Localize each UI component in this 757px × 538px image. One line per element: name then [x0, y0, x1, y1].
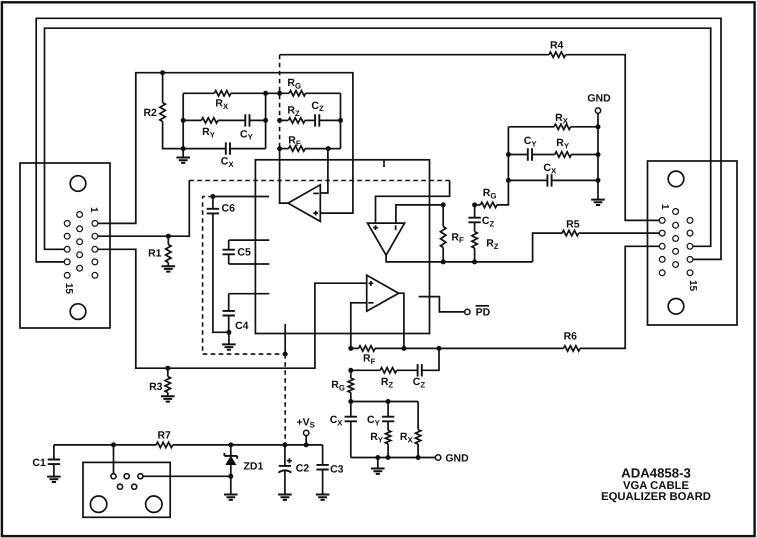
node network2 left bus row3: [506, 178, 511, 183]
node RY3 bottom: [386, 455, 391, 460]
capacitor C6: [212, 197, 214, 209]
ground at C4: [228, 332, 230, 344]
resistor R3: [165, 377, 170, 393]
wire network1 row1 to inner bus and dashed bus: [231, 92, 289, 94]
node network3 left: [348, 399, 353, 404]
terminal GND (channel 2 network top): [595, 108, 600, 113]
wire +Vs pin stub from inside chip: [284, 324, 286, 354]
node network3 CY branch: [386, 399, 391, 404]
node RX3 bottom: [416, 455, 421, 460]
svg-text:C2: C2: [296, 462, 310, 474]
node ZD1 / jack ground junction: [228, 474, 233, 479]
resistor RG (channel 3): [350, 370, 352, 378]
node rail at C2/dashed drop: [282, 442, 287, 447]
J1 pin circles right column: [92, 221, 98, 227]
node network2 right bus row1: [596, 124, 601, 129]
resistor R7: [156, 442, 173, 447]
J2 pin circles right column: [687, 218, 693, 224]
wire PD pin from chip: [419, 297, 465, 312]
dashed channel 2 path across chip: [189, 180, 449, 182]
wire outer wrap (J1 pin 4 to J2 pin 4 around top): [36, 18, 721, 262]
capacitor CY (channel 2): [508, 154, 527, 156]
wire RY to CY: [218, 119, 245, 121]
power jack pin 1: [111, 474, 116, 479]
resistor RY (channel 1): [201, 118, 218, 123]
wire R5 to J2 pin2: [579, 232, 660, 234]
svg-text:GND: GND: [587, 93, 611, 105]
node row1 inner bus: [263, 91, 268, 96]
op-amp U1c (channel 3, points right): [367, 275, 399, 311]
wire RZ3 left stub: [351, 369, 381, 371]
svg-text:ZD1: ZD1: [244, 460, 264, 472]
node row3 dashed bus: [277, 146, 282, 151]
connector J2 (right VGA DB15) body: [648, 161, 738, 325]
node network2 left bus row2: [506, 152, 511, 157]
wire network2 row1 left: [508, 126, 554, 128]
node network3 ground branch: [375, 455, 380, 460]
node row2 dashed bus: [277, 118, 282, 123]
svg-text:1: 1: [659, 204, 670, 210]
svg-text:R6: R6: [564, 331, 578, 343]
wire network1 row1 left segment: [183, 92, 214, 94]
wire inner wrap (J1 pin 3 to J2 pin 3 around top): [45, 28, 711, 249]
op-amp package U1 (ADA4858-3) outline: [255, 160, 429, 334]
resistor R6: [564, 346, 581, 351]
wire R1 bottom stub: [167, 263, 169, 267]
wire RZ3 to CZ3: [397, 369, 418, 371]
ground at C3: [316, 495, 330, 500]
node network2 right bus row3: [596, 178, 601, 183]
svg-text:R5: R5: [566, 218, 580, 230]
resistor RZ (channel 3): [380, 368, 397, 373]
svg-text:R1: R1: [148, 247, 162, 259]
ground at R1: [162, 266, 176, 271]
ground at C2: [278, 495, 292, 500]
node RZ2 bottom: [472, 259, 477, 264]
capacitor C3: [322, 445, 324, 465]
wire R3 bottom stub: [167, 393, 169, 397]
node rail at ZD1: [228, 442, 233, 447]
dashed supply route from C6 node around to +Vs pin: [203, 197, 286, 355]
capacitor CX (channel 1): [226, 142, 230, 154]
connector J1 mounting hole bottom: [70, 304, 86, 320]
node RF / op-amp1 inverting riser: [326, 146, 331, 151]
op-amp U1a (channel 1, points left): [288, 185, 320, 222]
capacitor C4 top stub: [229, 293, 270, 295]
ground at ZD1: [224, 495, 238, 500]
node C4/C6 ground junction: [226, 330, 231, 335]
resistor R4: [549, 52, 566, 57]
node RZ2/CZ2 top: [472, 202, 477, 207]
power jack pin 4: [117, 484, 122, 489]
node network1 ground junction: [181, 146, 186, 151]
resistor RX (channel 2): [554, 124, 571, 129]
svg-text:R3: R3: [149, 381, 163, 393]
node rail to power connector: [111, 442, 116, 447]
resistor R4 wire to J2 pin 1: [280, 54, 549, 56]
resistor RZ (channel 2): [474, 222, 476, 231]
wire power jack ground pin to ZD1 node: [143, 475, 231, 477]
node network2 right bus row2: [596, 152, 601, 157]
wire RF right to bus: [305, 148, 341, 150]
resistor R5: [562, 230, 579, 235]
capacitor CX (channel 2): [508, 179, 547, 181]
wire network3 node row: [351, 401, 418, 403]
connector J1 (left VGA DB15) body: [20, 163, 110, 328]
terminal GND (channel 3 network): [435, 455, 440, 460]
capacitor CZ (channel 2): [474, 205, 476, 218]
resistor R1: [166, 245, 171, 263]
capacitor CY (channel 1): [245, 114, 249, 126]
resistor RG (channel 2): [475, 204, 481, 206]
power jack body: [83, 462, 170, 517]
wire channel 2 input drop to op-amp U1b +: [376, 181, 450, 224]
wire channel 3 input: J1 pin3 down, across, up to op-amp U1c +: [98, 249, 367, 368]
wire CZ to right bus: [320, 119, 341, 121]
capacitor CZ (channel 3): [418, 364, 422, 376]
node U1c output at RF3 row: [401, 346, 406, 351]
op-amp U1b (channel 2, points down): [368, 223, 405, 255]
svg-text:EQUALIZER BOARD: EQUALIZER BOARD: [601, 491, 711, 503]
terminal +Vs: [305, 436, 307, 445]
svg-text:C3: C3: [330, 463, 344, 475]
capacitor C5 top stub: [229, 239, 270, 241]
power jack pin 3: [138, 474, 143, 479]
node RZ3 row left: [348, 368, 353, 373]
power jack mounting hole right: [146, 496, 162, 512]
svg-text:R4: R4: [550, 39, 564, 51]
wire U1c output right and down to RF3 row: [399, 293, 404, 348]
wire RZ left stub: [280, 119, 289, 121]
wire R4 right, down to J2 pin1: [566, 55, 660, 221]
capacitor CZ (channel 1): [315, 114, 319, 126]
wire CX to inner bus bottom: [230, 148, 265, 150]
dashed bus channel 1 (R4 tap down to RG/RZ/RF rows): [279, 55, 281, 149]
terminal PD: [465, 309, 470, 314]
node RF2 top: [441, 202, 446, 207]
node rail at +Vs terminal: [304, 442, 309, 447]
wire network3 bottom row to GND terminal: [351, 457, 436, 459]
wire channel 2 input: J1 pin2 to riser: [98, 181, 190, 237]
node R1 junction: [166, 234, 171, 239]
svg-text:GND: GND: [445, 452, 469, 464]
connector J2 mounting hole top: [668, 171, 684, 187]
svg-text:R7: R7: [157, 430, 171, 442]
wire CY to inner bus: [250, 119, 266, 121]
resistor RX (channel 3): [417, 402, 419, 430]
wire network1 inner right bus: [265, 93, 267, 148]
node C6 top: [210, 194, 215, 199]
J2 pin circles left column: [659, 218, 665, 224]
wire network1 row3: ground node to CX: [183, 148, 225, 150]
wire rail down to power jack pin: [113, 445, 115, 473]
connector J1 mounting hole top: [70, 176, 86, 192]
wire RG right to feedback bus: [306, 92, 341, 94]
power jack pin 5: [132, 484, 137, 489]
wire network2 right bus: [597, 113, 599, 199]
wire feedback right bus (channel 1): [340, 93, 342, 148]
node R2 top junction: [160, 70, 165, 75]
pin tick top of U1: [383, 160, 385, 167]
node RF2 bottom: [441, 259, 446, 264]
wire R1 top stub: [167, 236, 169, 244]
ground at C1: [47, 477, 61, 482]
svg-text:1: 1: [88, 207, 99, 213]
wire network1 row2: left bus to RY: [183, 119, 201, 121]
J1 pin circles middle column: [77, 212, 83, 218]
connector J2 mounting hole bottom: [668, 299, 684, 315]
ground at network3: [377, 458, 379, 469]
svg-text:ADA4858-3: ADA4858-3: [621, 466, 691, 481]
wire U1c inverting input left and down to RF3 node: [351, 303, 367, 349]
svg-text:15: 15: [687, 280, 698, 292]
svg-text:C6: C6: [222, 203, 236, 215]
node RZ3/CZ3 right riser top: [437, 346, 442, 351]
resistor RF (channel 2): [442, 205, 444, 227]
node RF3 left: [348, 346, 353, 351]
node row1 dashed bus: [277, 91, 282, 96]
wire RZ to CZ: [305, 119, 315, 121]
node R3 junction: [165, 366, 170, 371]
wire U1b output down and right to feedback row: [386, 255, 532, 262]
wire R2 top stub: [162, 73, 164, 103]
resistor RF (channel 1): [289, 146, 306, 151]
node row2 inner bus: [263, 118, 268, 123]
wire network1 left bus: [182, 93, 184, 148]
wire +Vs supply rail: [54, 444, 156, 446]
wire R3 top stub: [167, 368, 169, 376]
svg-text:C5: C5: [237, 247, 251, 259]
wire R6 right, up to J2 pin3: [580, 246, 660, 348]
capacitor C1: [53, 445, 55, 460]
wire network2 row1 right: [571, 126, 598, 128]
wire supply rail right of R7: [173, 444, 323, 446]
capacitor C2 (electrolytic): [284, 445, 286, 466]
capacitor C4: [228, 294, 230, 311]
wire RG2 right and up network2 left bus: [497, 127, 509, 205]
zener diode ZD1: [230, 445, 232, 456]
wire op2 output riser to R5: [533, 233, 563, 262]
wire channel 1 input: J1 pin1 right, up, across top, down to op-amp U1a +: [98, 73, 353, 224]
J1 pin circles left column: [64, 221, 70, 227]
wire U1b inverting input up and right to RF2 node: [396, 205, 443, 223]
resistor RG (channel 1): [289, 91, 306, 96]
node row2 right bus: [338, 118, 343, 123]
ground at R2 / network 1: [182, 149, 184, 158]
wire U1a inverting input to RF node: [320, 149, 328, 193]
wire R2 bottom to ground node: [163, 122, 184, 149]
J2 pin circles middle column: [673, 209, 679, 215]
wire op-amp U1a output to feedback bus: [280, 149, 288, 204]
resistor RY (channel 2): [532, 154, 555, 156]
capacitor C6 pin stub to chip: [213, 196, 269, 198]
resistor R2: [160, 103, 165, 122]
svg-text:15: 15: [63, 283, 74, 295]
wire C6 bottom bus down to ground node: [213, 213, 229, 332]
node +Vs pin junction: [283, 352, 288, 357]
capacitor C5 bottom stub: [229, 263, 270, 265]
capacitor CY (channel 3): [387, 402, 389, 417]
ground at network2 bus bottom: [591, 200, 605, 205]
svg-text:R2: R2: [143, 107, 157, 119]
resistor RY (channel 3): [387, 421, 389, 430]
wire RF left stub: [280, 148, 289, 150]
power jack mounting hole left: [90, 496, 106, 512]
capacitor CX (channel 3): [350, 402, 352, 417]
wire RF3 right through nodes to R6: [375, 347, 564, 349]
resistor RF (channel 3): [351, 347, 359, 349]
wire RG3 bottom to node row: [350, 393, 352, 402]
wire CZ3 right riser up: [422, 348, 439, 370]
resistor RZ (channel 1): [288, 118, 305, 123]
dashed supply drop to +Vs rail: [284, 354, 286, 445]
node network1 left bus row2: [181, 118, 186, 123]
svg-text:C1: C1: [32, 457, 46, 469]
resistor RX (channel 1): [214, 91, 231, 96]
svg-text:PD: PD: [476, 307, 491, 319]
ground at R3: [161, 396, 175, 401]
svg-text:C4: C4: [235, 320, 249, 332]
capacitor C5: [228, 240, 230, 250]
power jack pin 2: [124, 474, 129, 479]
